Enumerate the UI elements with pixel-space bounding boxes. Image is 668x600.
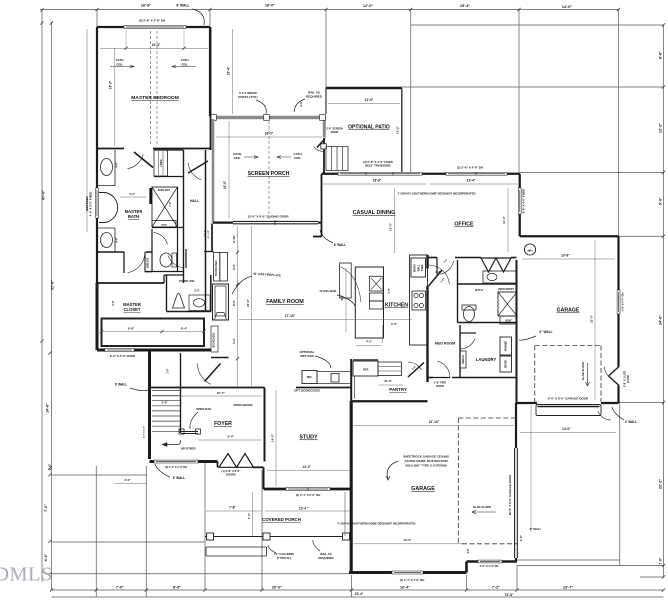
svg-text:4'-1 1/2": 4'-1 1/2" [207,230,210,238]
svg-text:6" WALL: 6" WALL [539,330,552,334]
svg-text:2'-6": 2'-6" [435,270,442,274]
svg-text:3'-0": 3'-0" [194,290,200,293]
svg-text:DMLS: DMLS [0,564,53,586]
svg-text:6' WALL: 6' WALL [176,4,189,8]
svg-text:6" WALL: 6" WALL [530,527,542,531]
svg-text:5'-6": 5'-6" [161,401,168,405]
svg-text:2'-6" X 5'-0": 2'-6" X 5'-0" [144,426,146,438]
svg-text:CEIL.: CEIL. [116,63,124,67]
svg-text:TEMPERED: TEMPERED [85,196,89,212]
svg-text:2'-8" FIRE: 2'-8" FIRE [434,381,446,385]
svg-text:14'-0": 14'-0" [271,433,275,442]
svg-text:© 2024 BY SOUTHERN HOME DESIGN: © 2024 BY SOUTHERN HOME DESIGNS® INCORPO… [338,522,416,526]
svg-text:17'-10": 17'-10" [285,314,296,318]
svg-text:OPTIONAL PATIO: OPTIONAL PATIO [348,125,390,131]
svg-text:OPT. BOOKCASES: OPT. BOOKCASES [294,389,320,393]
svg-text:ZERO ENT.: ZERO ENT. [158,189,171,192]
svg-text:FOYER: FOYER [214,421,232,427]
svg-text:© 2024 BY SOUTHERN HOME DESIGN: © 2024 BY SOUTHERN HOME DESIGNS® INCORPO… [398,192,476,196]
svg-text:REQUIRED: REQUIRED [306,95,323,99]
svg-text:OPEN RAIL: OPEN RAIL [196,407,212,411]
svg-text:SEAT: SEAT [161,223,167,226]
svg-text:18'-8": 18'-8" [373,179,382,183]
svg-text:STUDY: STUDY [299,435,318,441]
svg-text:WH: WH [528,248,533,252]
svg-text:2'-8": 2'-8" [168,369,170,374]
svg-text:4'-6": 4'-6" [44,553,48,561]
svg-text:10'-4": 10'-4" [152,43,161,47]
svg-text:16R STORED: 16R STORED [181,448,196,451]
svg-text:FAMILY ROOM: FAMILY ROOM [266,299,304,305]
svg-text:7'-0": 7'-0" [116,586,124,590]
svg-text:4'-0" X 8'-0" FIXED: 4'-0" X 8'-0" FIXED [89,192,93,217]
svg-text:6' WALL: 6' WALL [334,243,346,247]
svg-text:GARAGE: GARAGE [557,308,580,314]
svg-text:(2) 2'-8" X 4'-0" DH: (2) 2'-8" X 4'-0" DH [139,19,165,23]
svg-text:6'-4": 6'-4" [181,327,188,331]
svg-text:4'-0": 4'-0" [129,192,136,196]
svg-text:47'-0": 47'-0" [42,190,46,201]
svg-text:(2) 2'-4" X 2'-0" DH: (2) 2'-4" X 2'-0" DH [165,466,187,469]
svg-text:15'-7": 15'-7" [217,391,226,395]
svg-text:MASTER BEDROOM: MASTER BEDROOM [131,95,179,101]
svg-text:12'-0" X 8'-0" SLIDING DOOR: 12'-0" X 8'-0" SLIDING DOOR [247,215,289,219]
svg-text:(2) 2'-8" X 4'-0" DH: (2) 2'-8" X 4'-0" DH [457,166,483,170]
svg-text:12'-0": 12'-0" [363,4,374,8]
svg-text:DOOR: DOOR [331,131,339,134]
svg-text:8'-5": 8'-5" [173,586,181,590]
svg-text:4'-0": 4'-0" [232,337,236,344]
svg-text:9'-4": 9'-4" [228,435,235,439]
svg-text:DOOR: DOOR [626,375,630,383]
svg-text:14'-0": 14'-0" [562,5,573,9]
svg-text:2'-8" X 1 LITE: 2'-8" X 1 LITE [623,370,627,387]
svg-text:AS PER NCIRC 2018 SECTION: AS PER NCIRC 2018 SECTION [404,459,447,463]
svg-text:DOOR: DOOR [436,384,444,388]
svg-text:(1) 2'-4" X 4'-0" DH: (1) 2'-4" X 4'-0" DH [400,578,425,582]
svg-text:COVERED PORCH: COVERED PORCH [262,517,301,522]
svg-text:BATH: BATH [128,214,139,219]
svg-text:BENCH: BENCH [463,355,465,364]
svg-text:12'-0": 12'-0" [365,98,374,102]
svg-text:11'-0": 11'-0" [502,215,506,224]
svg-text:302.6 (5/8" TYPE X GYPSUM): 302.6 (5/8" TYPE X GYPSUM) [405,464,446,468]
svg-text:1'-6": 1'-6" [388,288,391,293]
svg-text:23'-4": 23'-4" [355,592,364,596]
svg-text:7'-0": 7'-0" [169,200,172,206]
svg-text:4' WALL: 4' WALL [625,420,637,424]
svg-text:14'-8": 14'-8" [46,403,50,413]
svg-text:2'-8" X 4'-0" FIXED: 2'-8" X 4'-0" FIXED [522,189,526,214]
svg-text:FLUSH BAR: FLUSH BAR [320,289,338,293]
svg-text:SHEETROCK GARAGE CEILING: SHEETROCK GARAGE CEILING [403,455,450,459]
svg-text:BATH: BATH [475,288,483,292]
svg-text:REF.: REF. [363,368,369,372]
svg-text:16'-0": 16'-0" [265,4,276,8]
svg-text:4'-0": 4'-0" [391,322,398,326]
svg-text:W/12" TRANSOMS: W/12" TRANSOMS [365,164,391,168]
svg-text:7'-8": 7'-8" [229,506,236,510]
svg-text:OFFICE: OFFICE [454,222,474,228]
svg-text:4'-6": 4'-6" [111,299,115,305]
svg-text:POSTS (TYP.): POSTS (TYP.) [238,95,257,99]
svg-text:13'-4": 13'-4" [467,179,476,183]
svg-text:8'-10": 8'-10" [232,234,236,242]
svg-text:13'-8": 13'-8" [561,254,570,258]
svg-text:GARAGE: GARAGE [411,486,435,492]
svg-text:8'-8": 8'-8" [659,51,663,59]
svg-text:(1) 2'-8" X 8'-0": (1) 2'-8" X 8'-0" [222,469,242,473]
svg-text:OPEN ABOVE: OPEN ABOVE [233,403,252,407]
svg-text:CEIL.: CEIL. [294,156,302,160]
svg-text:10'-6": 10'-6" [384,379,392,383]
svg-text:22'-0": 22'-0" [590,314,594,323]
svg-text:12'-2": 12'-2" [659,123,663,134]
svg-text:SHELVES: SHELVES [148,257,150,268]
svg-text:7'-0": 7'-0" [247,512,251,519]
svg-text:6' WALL: 6' WALL [115,383,127,387]
svg-text:WASHER: WASHER [505,341,508,351]
svg-text:13'-0": 13'-0" [302,465,311,469]
svg-text:19'-7": 19'-7" [563,586,574,590]
svg-text:16'-2": 16'-2" [265,132,274,136]
svg-text:6' WALL: 6' WALL [173,476,185,480]
svg-text:4'-6": 4'-6" [115,161,119,168]
svg-text:14'-0": 14'-0" [562,427,571,431]
svg-text:BOOKCASES: BOOKCASES [215,260,218,276]
svg-text:2'-0" X 4'-0" FIXED: 2'-0" X 4'-0" FIXED [110,354,135,358]
svg-text:3'-6" X: 3'-6" X [205,230,207,237]
svg-text:16'-8": 16'-8" [141,4,152,8]
svg-text:MICRO: MICRO [414,264,417,272]
svg-text:OVEN: OVEN [421,264,424,271]
svg-text:WET BAR: WET BAR [300,354,314,358]
svg-text:73'-6": 73'-6" [504,593,514,597]
svg-text:16'-0": 16'-0" [109,80,113,89]
svg-text:HALL: HALL [190,199,199,203]
svg-text:9'-2": 9'-2" [340,294,344,301]
svg-text:ZERO ENTRY: ZERO ENTRY [498,288,514,291]
svg-text:15'-4": 15'-4" [460,4,471,8]
svg-text:CATH.: CATH. [181,58,190,62]
svg-text:SEAT: SEAT [505,320,512,323]
svg-text:4'-6": 4'-6" [115,236,119,243]
svg-text:DRYER: DRYER [506,360,508,368]
svg-text:KITCHEN: KITCHEN [385,303,408,309]
svg-text:CASUAL DINING: CASUAL DINING [353,210,396,216]
svg-text:DOORS: DOORS [226,473,236,477]
svg-text:9'-6": 9'-6" [659,197,663,205]
svg-text:REQUIRED: REQUIRED [318,556,333,560]
svg-text:SLAB SLOPE: SLAB SLOPE [581,362,585,381]
svg-text:9'-0" X 8'-0" GARAGE DOOR: 9'-0" X 8'-0" GARAGE DOOR [548,397,589,401]
svg-text:16'-0": 16'-0" [223,180,227,189]
svg-text:1'-8": 1'-8" [519,534,523,541]
svg-text:CEIL.: CEIL. [234,156,242,160]
svg-text:16'-4": 16'-4" [227,66,231,75]
svg-text:(TYPICAL): (TYPICAL) [277,556,291,560]
svg-text:4'-6": 4'-6" [467,548,470,553]
svg-text:16'-4": 16'-4" [400,586,411,590]
svg-text:2'-8" X 4'-0" DH: 2'-8" X 4'-0" DH [621,292,625,311]
svg-text:CEIL.: CEIL. [181,63,189,67]
svg-text:BOOKCASES: BOOKCASES [213,332,216,347]
svg-text:3'-0": 3'-0" [124,478,131,482]
svg-text:POWD. RM.: POWD. RM. [179,279,195,283]
svg-text:20'-0": 20'-0" [272,586,283,590]
svg-text:6'-0": 6'-0" [232,299,236,306]
svg-text:22'-2": 22'-2" [659,479,663,490]
svg-text:4'-0": 4'-0" [299,100,303,107]
svg-text:CATH.: CATH. [116,58,125,62]
svg-text:4'-0": 4'-0" [366,340,373,344]
svg-text:4'-5": 4'-5" [232,263,236,270]
svg-text:15'-0": 15'-0" [389,222,393,231]
svg-text:22'-10": 22'-10" [429,420,440,424]
svg-text:CLOSET: CLOSET [124,307,141,312]
svg-text:LINEN: LINEN [161,159,163,166]
svg-text:2'-0": 2'-0" [48,463,52,470]
svg-text:PANTRY: PANTRY [389,387,407,392]
svg-text:LAUNDRY: LAUNDRY [476,357,497,362]
svg-text:(2) 2'-4" X 6'-0" DH: (2) 2'-4" X 6'-0" DH [296,493,321,497]
svg-text:7'-2": 7'-2" [492,586,500,590]
svg-text:SLAB SLOPE: SLAB SLOPE [473,505,492,509]
svg-text:24'-0": 24'-0" [659,315,663,326]
svg-text:2'-0" X 4'-0" DH: 2'-0" X 4'-0" DH [480,564,499,568]
svg-text:REF.: REF. [307,375,313,379]
svg-text:12'-4 ": 12'-4 " [299,507,309,511]
svg-text:9'-8": 9'-8" [128,327,135,331]
svg-text:16'-0" X 8'-0" GARAGE DOOR: 16'-0" X 8'-0" GARAGE DOOR [508,474,512,515]
svg-text:1'-8": 1'-8" [659,557,663,564]
svg-text:SCREEN PORCH: SCREEN PORCH [248,171,290,177]
svg-text:15'-5": 15'-5" [403,538,412,542]
svg-text:31'-6": 31'-6" [51,280,55,291]
svg-text:MUD ROOM: MUD ROOM [435,342,455,346]
svg-text:12'-2": 12'-2" [396,125,400,134]
svg-text:22'-6": 22'-6" [246,298,250,307]
svg-text:7'-6": 7'-6" [44,504,48,512]
